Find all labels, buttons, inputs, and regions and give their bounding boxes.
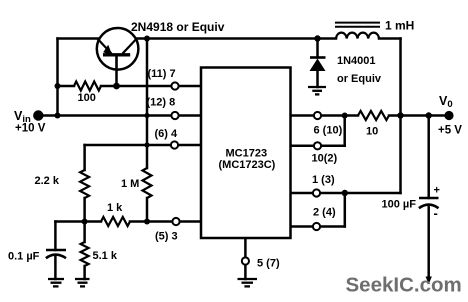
wire inductor to right corner (379, 37, 401, 40)
svg-text:1 (3): 1 (3) (312, 174, 335, 186)
wire row 86 resistor to pin (11)7 (101, 85, 201, 88)
arrow end of 100uF ground wire (426, 277, 432, 285)
svg-text:100: 100 (78, 92, 96, 104)
wire Vin row 115.5 (42, 114, 201, 117)
svg-text:MC1723: MC1723 (226, 148, 268, 160)
svg-text:10: 10 (366, 126, 378, 138)
wire row 226.5 pin 2(4) (291, 225, 345, 228)
svg-text:+5 V: +5 V (438, 125, 462, 137)
resistor R 2.2k (80, 170, 89, 198)
wire 1M bottom to node row 221.5 (146, 198, 149, 222)
transistor emitter arrow (PNP) (103, 45, 112, 56)
node: junction dots (55, 83, 61, 89)
resistor R 1M (143, 168, 152, 198)
svg-text:100 µF: 100 µF (382, 199, 417, 211)
svg-text:2N4918 or Equiv: 2N4918 or Equiv (131, 20, 225, 34)
svg-text:SeekIC.com: SeekIC.com (346, 274, 462, 297)
resistor R 100 (74, 82, 101, 91)
inductor L1 1 mH (335, 23, 380, 39)
svg-text:1 mH: 1 mH (385, 19, 414, 33)
transistor Q1 2N4918 (97, 28, 139, 70)
ground (IC pin 5(7)) (238, 279, 258, 286)
wire collector vertical x=147 down to 1M (146, 39, 149, 169)
svg-text:1N4001: 1N4001 (337, 55, 376, 67)
svg-text:or Equiv: or Equiv (337, 73, 382, 85)
wire row 221.5 pin (5)3 (55, 220, 101, 223)
terminal V0 (444, 111, 453, 120)
wire row 193 pin 1(3) (291, 192, 401, 195)
wire 2.2k top lead (83, 145, 86, 170)
resistor R 10 (358, 111, 389, 120)
wire 100uF top lead (427, 116, 430, 199)
wire 5.1k bottom lead (83, 266, 86, 279)
svg-text:5 (7): 5 (7) (257, 258, 280, 270)
svg-text:5.1 k: 5.1 k (93, 250, 118, 262)
capacitor C1 0.1uF (46, 249, 66, 252)
wire right vertical (inductor corner down to pin 1(3) row) (399, 39, 402, 194)
svg-text:1 k: 1 k (107, 202, 123, 214)
wire 0.1uF bottom lead (54, 256, 57, 279)
capacitor C2 100uF polarized (419, 197, 439, 200)
svg-text:10(2): 10(2) (312, 153, 338, 165)
wire left vertical x=57.5 (56, 39, 59, 116)
wire top rail left (Vin riser to transistor emitter) (58, 37, 99, 40)
svg-text:(11) 7: (11) 7 (148, 68, 176, 80)
terminal Vin (33, 110, 43, 120)
svg-text:2.2 k: 2.2 k (35, 175, 60, 187)
wire 100uF bottom lead (427, 206, 430, 279)
svg-text:(5) 3: (5) 3 (155, 231, 178, 243)
wire 0.1uF top lead (54, 222, 57, 251)
svg-text:+: + (434, 185, 440, 197)
ground (5.1k) (75, 279, 90, 286)
wire output row 115.5 (pin 6(10) through R10 to V0) (291, 114, 359, 117)
wire diode bottom lead (316, 71, 319, 87)
svg-text:6 (10): 6 (10) (314, 125, 343, 137)
wire transistor base lead (115, 56, 118, 86)
wire row 145 pin (6)4 (85, 144, 201, 147)
pin circles (open) (171, 82, 321, 264)
ground (diode) (308, 87, 326, 94)
svg-text:+10 V: +10 V (15, 123, 46, 135)
wire row 86 left of resistor (58, 85, 75, 88)
svg-text:2 (4): 2 (4) (313, 207, 336, 219)
svg-text:(6) 4: (6) 4 (155, 128, 179, 140)
wire diode top lead (316, 39, 319, 58)
wire pin 5(7) lead (244, 238, 247, 257)
svg-text:0.1 µF: 0.1 µF (8, 251, 40, 263)
wire link pins 6(10)-10(2) (343, 116, 346, 146)
wire 2.2k bottom lead (83, 198, 86, 222)
svg-text:-: - (434, 206, 438, 221)
wire row 145.8 pin 10(2) (291, 145, 345, 148)
resistor R 1k (101, 217, 130, 226)
resistor R 5.1k (81, 242, 89, 266)
svg-text:(12) 8: (12) 8 (147, 97, 176, 109)
diode D1 1N4001 (310, 56, 326, 59)
svg-text:1 M: 1 M (121, 178, 139, 190)
ground (0.1uF) (48, 279, 64, 286)
wire 5.1k top lead (83, 222, 86, 243)
wire link pins 1(3)-2(4) (344, 193, 347, 227)
svg-text:(MC1723C): (MC1723C) (219, 159, 276, 171)
IC U1 MC1723 box (201, 68, 291, 239)
wire top rail (collector to diode node to inductor) (137, 37, 336, 40)
